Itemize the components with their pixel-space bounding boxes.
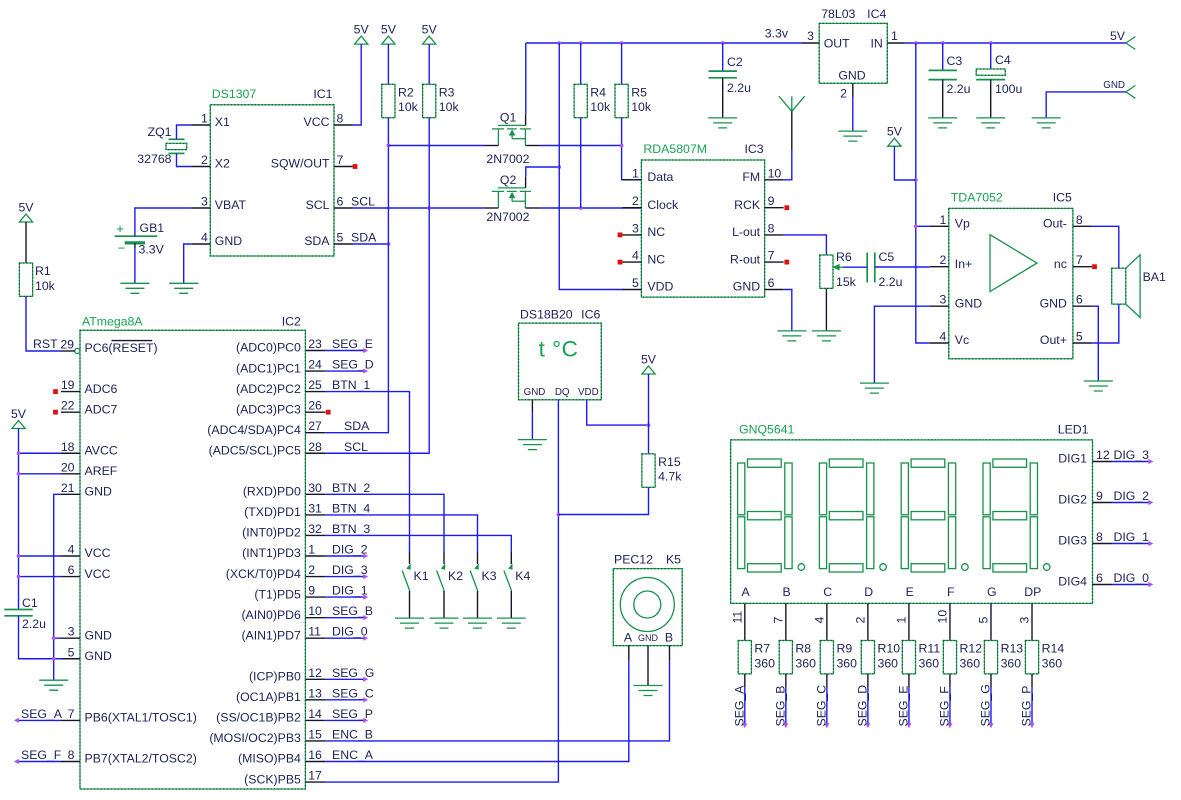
svg-text:GND: GND [85,628,112,642]
svg-text:5V: 5V [381,23,397,37]
ground at K3 [463,618,492,628]
svg-text:C1: C1 [22,596,38,610]
svg-text:2.2u: 2.2u [727,81,751,95]
svg-text:(INT0)PD2: (INT0)PD2 [242,526,301,540]
svg-text:DIG3: DIG3 [1058,534,1087,548]
svg-text:(INT1)PD3: (INT1)PD3 [242,546,301,560]
wire 3.3v to IC3 VDD [559,43,623,290]
svg-text:10: 10 [935,610,949,624]
svg-text:2: 2 [939,253,946,267]
svg-text:2.2u: 2.2u [22,617,46,631]
svg-text:DIG_1: DIG_1 [332,584,368,598]
resistor R12 360 [943,641,956,674]
wire 5V symbol to rail column [894,146,915,180]
wire R15 bottom to DQ [558,487,648,514]
svg-text:GB1: GB1 [140,221,165,235]
wire rail to C4 [990,43,992,69]
svg-text:IN: IN [870,37,882,51]
IC2 pin 1 (INT1)PD3 [305,555,325,557]
svg-text:360: 360 [1001,656,1022,670]
IC2 pin 16 (MISO)PB4 [305,761,325,763]
svg-text:GND: GND [1040,296,1067,310]
svg-text:PEC12: PEC12 [614,553,653,567]
svg-text:L-out: L-out [732,225,761,239]
IC3 pin 3 NC [622,234,641,236]
svg-text:1: 1 [308,543,315,557]
wire IC3 GND to ground [784,290,792,331]
wire R12 to net SEG_F [949,674,951,687]
svg-text:DP: DP [1024,585,1041,599]
capacitor C4 100u electrolytic [976,69,1005,75]
svg-text:3: 3 [68,625,75,639]
svg-text:22: 22 [61,399,75,413]
svg-text:R7: R7 [754,642,770,656]
svg-text:K4: K4 [515,569,530,583]
IC5 pin 4 Vc [930,342,949,344]
wire VDD to R15 column [587,400,649,425]
switch K2 [443,551,445,564]
wire Q1 drain to R5 column [540,145,622,147]
svg-text:5V: 5V [354,23,370,37]
IC2 pin 23 (ADC0)PC0 [305,350,325,352]
svg-text:X2: X2 [215,157,230,171]
svg-text:VCC: VCC [304,115,330,129]
svg-text:R1: R1 [35,264,51,278]
svg-text:(AIN0)PD6: (AIN0)PD6 [241,608,301,622]
wire GND21 column down to ground [54,494,61,680]
svg-text:13: 13 [308,686,322,700]
capacitor C3 2.2u [929,69,957,71]
svg-text:IC1: IC1 [313,87,332,101]
ground at R6 [812,331,841,341]
svg-text:4.7k: 4.7k [658,470,682,484]
seven segment digit 2 [819,459,886,572]
ground at IC3 GND [777,331,806,341]
svg-text:10: 10 [308,604,322,618]
wire Q1 gate to 3.3v rail [525,43,527,114]
svg-text:GND: GND [955,296,982,310]
switch K1 [409,551,411,564]
transistor Q2 2N7002 [498,187,526,189]
svg-text:IC3: IC3 [744,142,763,156]
IC3 pin 5 VDD [622,289,641,291]
svg-text:SCL: SCL [306,198,330,212]
svg-text:15k: 15k [836,275,857,289]
svg-text:GND: GND [1103,80,1125,91]
svg-text:5: 5 [68,645,75,659]
wire BTN net to switch K1 [325,392,409,552]
svg-text:D: D [864,585,873,599]
IC U3: RDA5807M IC3 body [641,160,764,297]
wire BTN net to switch K2 [325,494,444,551]
amplifier triangle inside IC5 [990,235,1037,292]
wire stub net SEG_E [325,350,364,352]
switch K3 [477,551,479,564]
IC5 pin 3 GND [930,305,949,307]
svg-text:C3: C3 [947,54,963,68]
svg-text:6: 6 [68,563,75,577]
svg-text:BA1: BA1 [1143,270,1166,284]
svg-text:DIG_0: DIG_0 [332,625,368,639]
svg-text:VCC: VCC [85,567,111,581]
ground under IC1 GND [169,283,198,293]
IC1 pin 6 SCL [334,207,353,209]
svg-text:C5: C5 [879,250,895,264]
wire C2 to ground [722,78,724,118]
wire BTN net to switch K3 [325,515,477,551]
wire net DIG_2 [1112,502,1149,504]
svg-text:Vc: Vc [955,333,969,347]
capacitor C2 2.2u [709,70,737,72]
svg-text:DIG_0: DIG_0 [1113,571,1149,585]
wire GND connector to ground [1046,92,1126,118]
wire Q1 source to R2 column (SDA 3.3V side) [388,145,484,147]
svg-text:R14: R14 [1042,642,1065,656]
encoder outer circle [620,578,674,632]
svg-text:In+: In+ [955,257,972,271]
ground at C2 [708,118,737,128]
svg-text:2: 2 [308,563,315,577]
svg-text:4: 4 [68,543,75,557]
display LED1 GNQ5641 body [731,440,1093,604]
wire DQ down to IC2 pin17 [325,400,558,782]
switch K4 [510,551,512,564]
svg-text:Data: Data [647,170,673,184]
wire IC4 GND to ground [852,97,854,131]
wire 3.3v to C2 [722,43,724,71]
svg-text:C: C [823,585,832,599]
svg-text:32: 32 [308,522,322,536]
svg-text:IC2: IC2 [282,314,301,328]
svg-text:2N7002: 2N7002 [486,152,529,166]
svg-text:12: 12 [308,666,322,680]
IC2 pin 21 GND [61,493,80,495]
svg-text:(SCK)PB5: (SCK)PB5 [244,772,301,786]
svg-text:DIG_1: DIG_1 [1113,530,1149,544]
svg-text:(MOSI/OC2)PB3: (MOSI/OC2)PB3 [209,731,301,745]
svg-text:BTN_3: BTN_3 [332,522,370,536]
wire R11 to net SEG_E [908,674,910,687]
IC2 pin 11 (AIN1)PD7 [305,637,325,639]
antenna FM [779,96,805,111]
wire R7 to net SEG_A [744,674,746,687]
wire BTN net to switch K4 [325,535,511,551]
svg-text:15: 15 [308,727,322,741]
svg-text:10k: 10k [35,279,56,293]
svg-text:32768: 32768 [137,152,171,166]
IC3 pin 4 NC [622,261,641,263]
resistor R13 360 [984,641,997,674]
svg-text:SEG_P: SEG_P [1020,685,1034,726]
svg-text:1: 1 [894,617,908,624]
IC1 pin 2 X2 [191,166,210,168]
svg-text:2.2u: 2.2u [879,275,903,289]
svg-text:20: 20 [61,460,75,474]
svg-text:24: 24 [308,358,322,372]
svg-text:5V: 5V [11,407,27,421]
wire encoder GND to ground [647,646,649,686]
IC2 pin 29 PC6(RESET) with inversion bubble [75,348,80,353]
IC1 pin 8 VCC [334,124,353,126]
wire stub net SEG_G [325,678,364,680]
svg-text:4: 4 [939,330,946,344]
svg-text:3: 3 [1018,617,1032,624]
crystal ZQ1 32768 [169,138,185,140]
wire X1 to crystal [177,125,192,139]
svg-text:(ADC4/SDA)PC4: (ADC4/SDA)PC4 [207,423,301,437]
svg-text:7: 7 [771,617,785,624]
svg-text:nc: nc [1054,257,1067,271]
svg-text:5: 5 [976,617,990,624]
svg-text:SEG_F: SEG_F [21,748,62,762]
wire stub net SEG_B [325,617,364,619]
resistor R1 10k [25,222,27,263]
svg-text:Out+: Out+ [1040,333,1067,347]
svg-text:X1: X1 [215,115,230,129]
svg-text:5V: 5V [422,23,438,37]
svg-text:SCL: SCL [344,440,368,454]
svg-text:K1: K1 [414,569,429,583]
svg-text:BTN_1: BTN_1 [332,378,370,392]
svg-text:5: 5 [337,231,344,245]
IC5 pin 1 Vp [930,225,949,227]
svg-text:8: 8 [1076,213,1083,227]
svg-text:GND: GND [524,387,546,398]
svg-text:R2: R2 [398,86,414,100]
rotary encoder K5 PEC12 body [613,569,682,646]
resistor R14 360 [1025,641,1038,674]
IC2 pin 28 (ADC5/SCL)PC5 [305,452,325,454]
encoder inner circle [634,591,661,618]
IC2 pin 24 (ADC1)PC1 [305,370,325,372]
ground at C4 [976,118,1005,128]
svg-text:3: 3 [632,221,639,235]
svg-text:IC4: IC4 [867,7,886,21]
wire encoder B to IC2 ENC_B [669,646,671,660]
svg-text:5V: 5V [1110,29,1126,43]
svg-text:1: 1 [939,213,946,227]
svg-text:VBAT: VBAT [215,198,247,212]
svg-text:29: 29 [60,338,74,352]
svg-text:31: 31 [308,501,322,515]
svg-text:10k: 10k [590,100,611,114]
seven segment digit 1 [738,459,805,572]
svg-text:AVCC: AVCC [85,443,118,457]
svg-text:SDA: SDA [304,234,330,248]
speaker BA1 [1112,268,1126,304]
no-connect marks ADC6 ADC7 [53,389,58,394]
svg-text:VDD: VDD [647,280,673,294]
ground at K2 [430,618,459,628]
svg-text:SEG_B: SEG_B [332,604,373,618]
wire R13 to net SEG_G [990,674,992,687]
IC2 pin 20 AREF [61,473,80,475]
wire IC1 GND pin to ground [184,244,192,283]
svg-text:DIG4: DIG4 [1058,575,1087,589]
svg-text:30: 30 [308,481,322,495]
svg-text:4: 4 [201,231,208,245]
IC2 pin 14 (SS/OC1B)PB2 [305,719,325,721]
svg-text:4: 4 [632,249,639,263]
wire IC5 GND6 to ground [1092,306,1098,381]
svg-text:360: 360 [877,656,898,670]
IC U6: DS18B20 IC6 body [519,323,602,400]
svg-text:360: 360 [836,656,857,670]
IC2 pin 32 (INT0)PD2 [305,534,325,536]
svg-text:SEG_P: SEG_P [332,707,373,721]
svg-text:DIG_3: DIG_3 [332,563,368,577]
svg-text:6: 6 [337,195,344,209]
svg-text:PB7(XTAL2/TOSC2): PB7(XTAL2/TOSC2) [85,752,197,766]
svg-text:16: 16 [308,748,322,762]
no-connect marks IC3 [618,233,623,238]
svg-text:10k: 10k [439,100,460,114]
svg-text:TDA7052: TDA7052 [951,190,1003,204]
svg-text:11: 11 [308,625,321,639]
wire battery - to ground [134,243,136,248]
svg-text:7: 7 [768,249,775,263]
wire net DIG_0 [1112,584,1149,586]
wire stub net SEG_P [325,719,364,721]
svg-text:DQ: DQ [555,387,570,398]
svg-text:LED1: LED1 [1058,423,1089,437]
svg-text:9: 9 [768,194,775,208]
wire R2 column: SDA net down to IC2 pin 27 [325,118,388,433]
wire L-out to R6 top [784,235,827,255]
svg-text:7: 7 [68,707,75,721]
IC2 pin 26 (ADC3)PC3 [305,411,325,413]
svg-text:5V: 5V [18,201,34,215]
wire Q2 gate to 3.3v feed [526,167,559,176]
svg-text:17: 17 [308,769,322,783]
ground under battery [120,283,149,293]
svg-text:DIG_3: DIG_3 [1113,448,1149,462]
wire net DIG_3 [1112,461,1149,463]
ground at K1 [395,618,424,628]
resistor R9 360 [820,641,833,674]
svg-text:GND: GND [638,633,659,643]
wire stub net DIG_3 [325,576,364,578]
IC2 pin 31 (TXD)PD1 [305,514,325,516]
svg-text:NC: NC [647,225,665,239]
svg-text:360: 360 [1042,656,1063,670]
svg-text:SEG_C: SEG_C [814,685,828,727]
svg-text:(MISO)PB4: (MISO)PB4 [238,752,301,766]
wire net 3.3v rail [526,42,802,44]
svg-text:8: 8 [1096,530,1103,544]
svg-text:(AIN1)PD7: (AIN1)PD7 [241,628,301,642]
svg-text:R13: R13 [1001,642,1024,656]
seven segment digit 3 [901,459,968,572]
IC3 pin 8 L-out [765,234,784,236]
wire R5 bottom to Data net [622,118,642,180]
svg-text:K2: K2 [448,569,463,583]
svg-text:360: 360 [754,656,775,670]
svg-text:(XCK/T0)PD4: (XCK/T0)PD4 [226,567,301,581]
svg-text:SEG_E: SEG_E [896,685,910,726]
svg-text:10: 10 [768,166,782,180]
svg-text:BTN_4: BTN_4 [332,501,370,515]
svg-text:SEG_D: SEG_D [855,685,869,727]
svg-text:DIG2: DIG2 [1058,493,1087,507]
svg-text:R3: R3 [439,86,455,100]
svg-text:2: 2 [201,153,208,167]
ground at IC4 [838,131,867,141]
wire VCC8 to 5V [353,44,362,125]
ground at IC5 GND6 [1084,381,1113,391]
svg-text:SDA: SDA [351,231,377,245]
IC2 pin 27 (ADC4/SDA)PC4 [305,432,325,434]
wire crystal to X2 [177,153,192,166]
IC4 pin 2 GND [852,83,854,97]
svg-text:K3: K3 [482,569,497,583]
svg-text:(TXD)PD1: (TXD)PD1 [244,505,301,519]
svg-text:7: 7 [1076,253,1083,267]
resistor R11 360 [902,641,915,674]
seven segment digit 4 [983,459,1050,572]
wire Out- to speaker top [1092,226,1119,268]
battery GB1 3.3V [115,235,158,237]
IC2 pin 22 ADC7 [61,411,80,413]
resistor R5 10k [621,43,623,84]
IC2 pin 18 AVCC [61,452,80,454]
ground at encoder [634,686,663,696]
resistor R3 10k [428,44,430,84]
svg-text:4: 4 [812,617,826,624]
wire R10 to net SEG_D [867,674,869,687]
IC2 pin 4 VCC [61,555,80,557]
svg-text:AREF: AREF [85,464,118,478]
IC2 pin 10 (AIN0)PD6 [305,617,325,619]
svg-text:18: 18 [61,440,75,454]
IC U4: 78L03 IC4 body [819,23,887,83]
svg-text:ENC_A: ENC_A [332,748,374,762]
svg-text:GNQ5641: GNQ5641 [739,423,795,437]
svg-text:12: 12 [1096,448,1110,462]
svg-text:R12: R12 [960,642,983,656]
svg-text:8: 8 [337,112,344,126]
svg-text:8: 8 [68,748,75,762]
svg-text:+: + [116,221,124,236]
svg-text:6: 6 [1076,293,1083,307]
svg-text:RST: RST [33,337,58,351]
resistor R8 360 [779,641,792,674]
svg-text:ZQ1: ZQ1 [148,125,172,139]
svg-text:R4: R4 [590,86,606,100]
wire 5V column to AVCC AREF VCC VCC and C1 [18,429,20,610]
svg-text:SEG_E: SEG_E [332,337,373,351]
svg-text:Out-: Out- [1043,217,1067,231]
wire net DIG_1 [1112,543,1149,545]
svg-text:R8: R8 [795,642,811,656]
no-connect mark IC5 pin7 [1092,264,1097,269]
svg-text:R11: R11 [919,642,941,656]
wire Out+ to speaker bottom [1092,304,1119,343]
svg-text:19: 19 [61,378,75,392]
svg-text:(RXD)PD0: (RXD)PD0 [243,485,301,499]
IC2 pin 15 (MOSI/OC2)PB3 [305,740,325,742]
svg-text:2: 2 [840,87,847,101]
IC5 pin 6 GND [1073,305,1092,307]
svg-text:GND: GND [215,234,242,248]
wire R6 wiper to C5 [843,266,867,268]
svg-text:E: E [906,585,914,599]
svg-text:DS18B20: DS18B20 [520,308,573,322]
svg-text:SEG_F: SEG_F [937,686,951,727]
svg-text:GND: GND [85,485,112,499]
svg-text:R9: R9 [836,642,852,656]
wire IC5 GND3 to ground [874,306,929,383]
